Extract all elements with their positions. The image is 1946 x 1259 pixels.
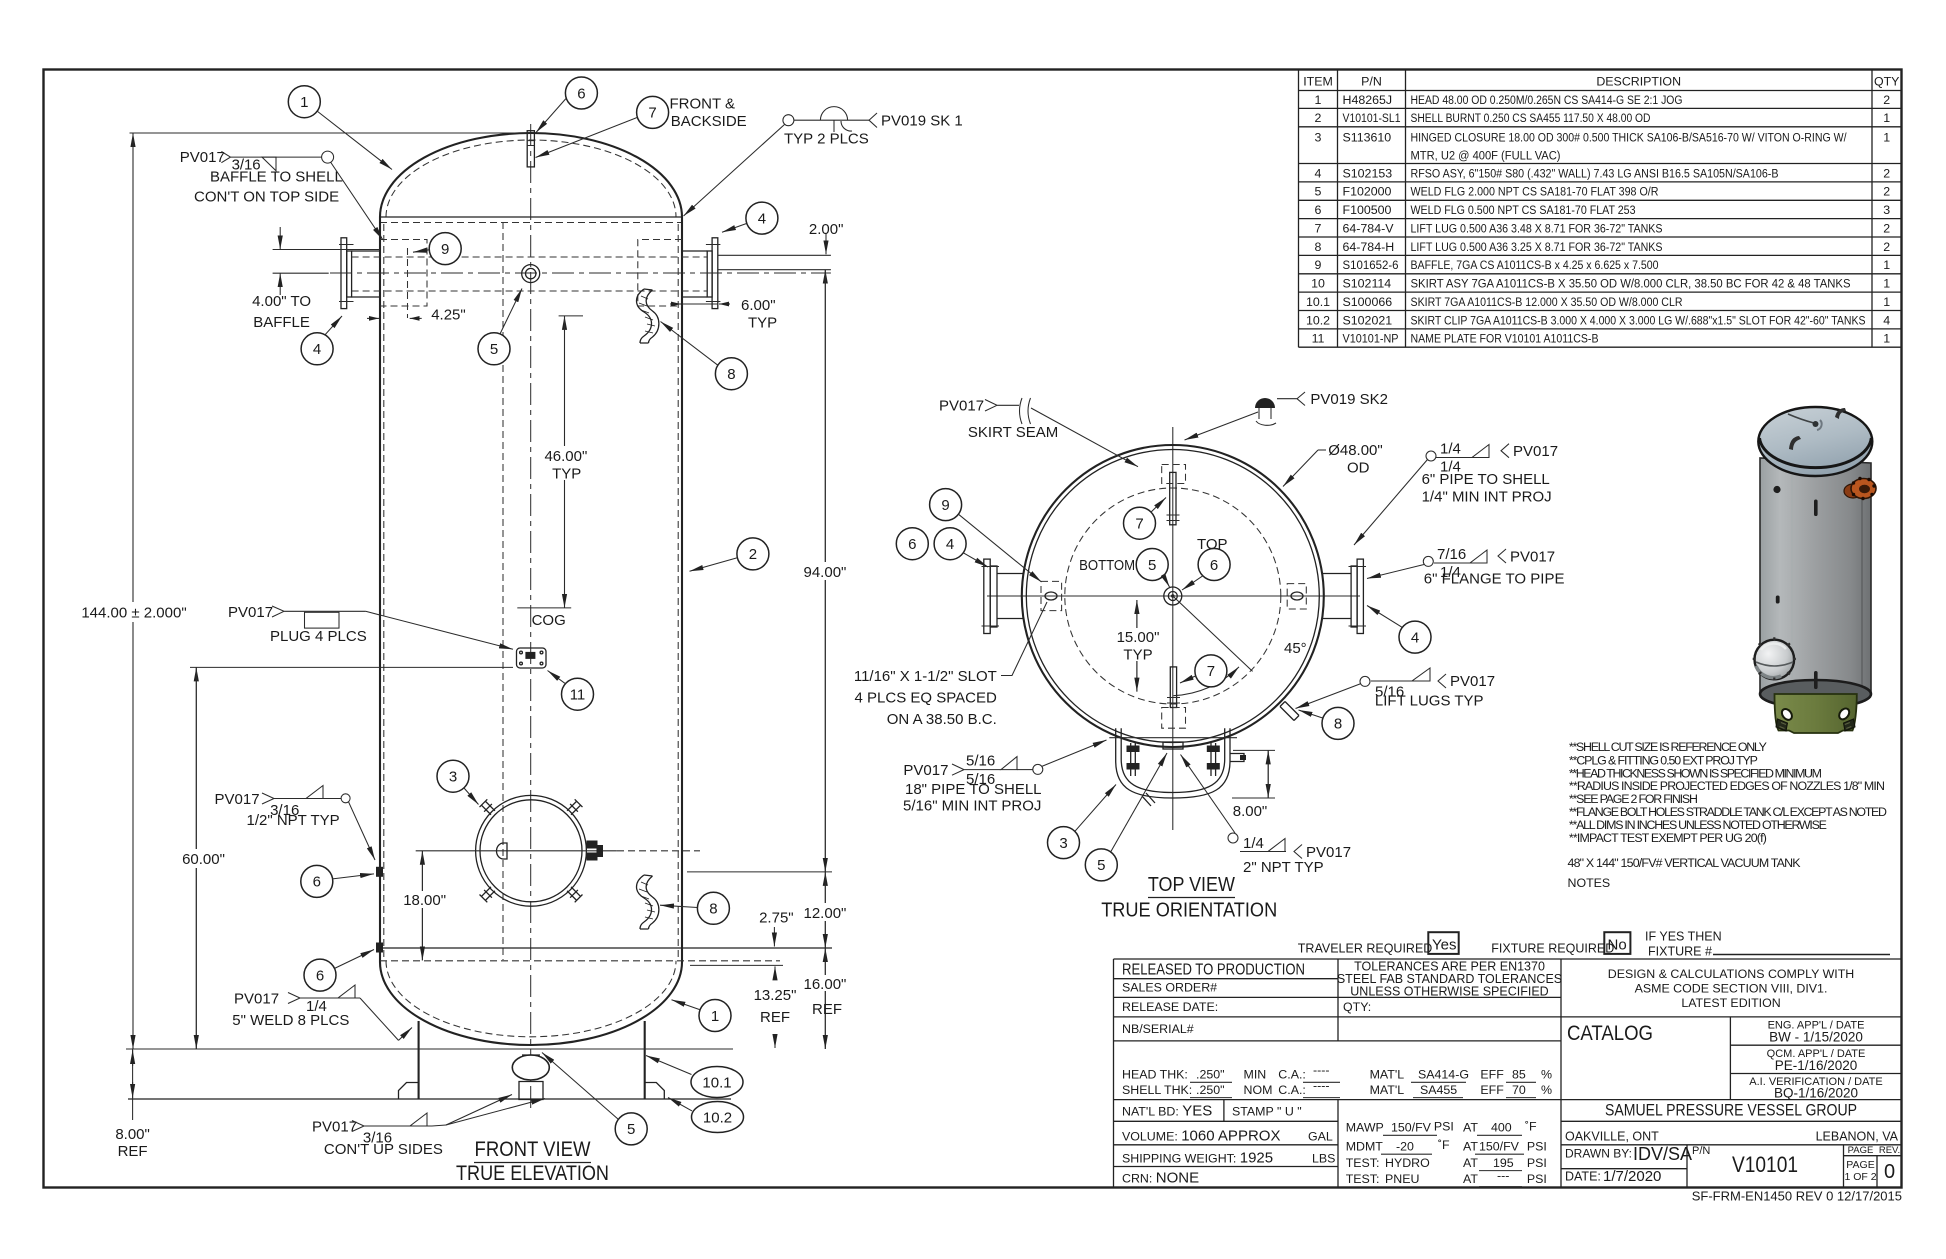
skirt slots [1780, 707, 1851, 722]
left pad dashed [1041, 581, 1062, 610]
svg-text:STAMP " U ": STAMP " U " [1232, 1105, 1302, 1119]
svg-text:2.75": 2.75" [759, 910, 794, 927]
svg-text:2" NPT TYP: 2" NPT TYP [1243, 859, 1324, 876]
svg-text:11: 11 [570, 687, 586, 704]
svg-text:P/N: P/N [1361, 75, 1382, 89]
svg-text:HEAD THK:: HEAD THK: [1122, 1068, 1188, 1082]
balloon 1 low [699, 1000, 731, 1032]
svg-text:REF: REF [760, 1009, 790, 1026]
svg-text:9: 9 [1315, 258, 1322, 272]
svg-text:400: 400 [1491, 1121, 1512, 1135]
svg-text:PV019 SK2: PV019 SK2 [1310, 391, 1388, 408]
svg-text:10.1: 10.1 [1306, 295, 1330, 309]
svg-text:F100500: F100500 [1343, 203, 1392, 217]
svg-text:PV017: PV017 [1510, 549, 1555, 566]
svg-text:SKIRT CLIP 7GA A1011CS-B 3.000: SKIRT CLIP 7GA A1011CS-B 3.000 X 4.000 X… [1411, 313, 1866, 327]
dim 2.00 [825, 233, 827, 254]
svg-text:----: ---- [1313, 1078, 1330, 1092]
svg-text:HINGED CLOSURE 18.00 OD 300# 0: HINGED CLOSURE 18.00 OD 300# 0.500 THICK… [1411, 130, 1847, 144]
svg-text:6: 6 [1210, 557, 1218, 574]
balloon 6 left top view [896, 528, 928, 560]
dim 144.00 [130, 132, 532, 134]
right reinforcing pad dashed [638, 240, 682, 307]
right nozzle flange (item 4) [1357, 559, 1363, 633]
svg-text:TEST:: TEST: [1346, 1172, 1380, 1186]
svg-text:S113610: S113610 [1343, 130, 1392, 144]
svg-text:3: 3 [1883, 203, 1890, 217]
svg-text:FIXTURE #: FIXTURE # [1648, 945, 1712, 959]
TABLE [1299, 70, 1902, 348]
svg-text:COG: COG [532, 612, 566, 629]
svg-text:PV017: PV017 [1450, 673, 1495, 690]
svg-text:TYP: TYP [552, 466, 581, 483]
dim 4.25 [367, 317, 379, 319]
7/16 1/4 weld callout [1423, 556, 1433, 566]
balloon 6 low [304, 959, 336, 991]
baffle hidden line (item 9) [407, 248, 409, 318]
svg-text:No: No [1608, 937, 1627, 954]
head/shell thk rows [1122, 1063, 1552, 1097]
svg-text:6: 6 [313, 874, 321, 891]
svg-text:˚F: ˚F [1525, 1119, 1537, 1133]
svg-text:PE-1/16/2020: PE-1/16/2020 [1775, 1058, 1858, 1073]
svg-text:BOTTOM: BOTTOM [1079, 557, 1135, 574]
svg-text:MIN: MIN [1244, 1068, 1267, 1082]
nozzle bore hidden lines [352, 257, 707, 291]
body slots [1814, 500, 1818, 517]
svg-text:S102114: S102114 [1343, 277, 1392, 291]
svg-text:1: 1 [1315, 93, 1322, 107]
internal hidden line [502, 222, 504, 960]
balloon 2 [737, 538, 769, 570]
svg-text:7/16: 7/16 [1437, 546, 1466, 563]
svg-text:REF: REF [812, 1001, 842, 1018]
NOTES [1568, 740, 1887, 890]
svg-text:NOTES: NOTES [1568, 876, 1611, 890]
svg-text:1 OF 2: 1 OF 2 [1844, 1171, 1876, 1183]
svg-text:UNLESS OTHERWISE SPECIFIED: UNLESS OTHERWISE SPECIFIED [1350, 985, 1548, 999]
svg-text:AT: AT [1463, 1121, 1478, 1135]
svg-text:2.00": 2.00" [809, 221, 844, 238]
svg-text:MAT'L: MAT'L [1370, 1068, 1405, 1082]
RENDER3D [1753, 407, 1876, 733]
3d manway [1755, 640, 1795, 680]
svg-text:PV019 SK 1: PV019 SK 1 [881, 113, 963, 130]
svg-text:RFSO ASY, 6"150# S80 (.432" WA: RFSO ASY, 6"150# S80 (.432" WALL) 7.43 L… [1411, 166, 1779, 180]
balloon 7 [637, 96, 669, 128]
svg-text:**SHELL CUT SIZE IS REFERENCE: **SHELL CUT SIZE IS REFERENCE ONLY [1569, 740, 1767, 754]
head lug handles [1789, 436, 1801, 450]
svg-text:LIFT LUG 0.500 A36 3.48 X 8.71: LIFT LUG 0.500 A36 3.48 X 8.71 FOR 36-72… [1411, 221, 1663, 235]
balloon 1 [288, 86, 320, 118]
svg-text:CON'T UP SIDES: CON'T UP SIDES [324, 1141, 443, 1158]
12.00 top boundary line [687, 871, 832, 873]
svg-text:LBS: LBS [1312, 1151, 1335, 1165]
svg-text:Yes: Yes [1432, 937, 1456, 954]
svg-text:GAL: GAL [1308, 1130, 1333, 1144]
svg-text:BW - 1/15/2020: BW - 1/15/2020 [1769, 1030, 1863, 1045]
dim 2.75 [773, 927, 775, 947]
dim 8.00 REF [132, 1049, 134, 1120]
svg-text:**HEAD THICKNESS SHOWN IS SPEC: **HEAD THICKNESS SHOWN IS SPECIFIED MINI… [1569, 766, 1822, 780]
svg-text:5: 5 [1315, 185, 1322, 199]
vessel centerline [530, 124, 532, 1108]
svg-text:BACKSIDE: BACKSIDE [671, 113, 747, 130]
svg-text:8: 8 [727, 366, 735, 383]
svg-text:8.00": 8.00" [115, 1126, 150, 1143]
dim 12.00 [824, 872, 826, 948]
svg-text:2: 2 [1883, 93, 1890, 107]
svg-text:4: 4 [946, 536, 954, 553]
svg-text:ON A 38.50 B.C.: ON A 38.50 B.C. [887, 711, 997, 728]
svg-text:PLUG 4 PLCS: PLUG 4 PLCS [270, 628, 367, 645]
svg-text:LIFT LUG 0.500 A36 3.25 X 8.71: LIFT LUG 0.500 A36 3.25 X 8.71 FOR 36-72… [1411, 240, 1663, 254]
svg-text:PV017: PV017 [939, 398, 984, 415]
svg-text:PV017: PV017 [903, 762, 948, 779]
2in npt stub on closure [1142, 793, 1155, 806]
svg-text:S100066: S100066 [1343, 295, 1393, 309]
bottom seam line [379, 947, 832, 949]
balloon 7 upper top view [1124, 507, 1156, 539]
3d vessel body [1760, 458, 1871, 708]
left nozzle flange (item 4) [984, 559, 990, 633]
svg-text:MAT'L: MAT'L [1370, 1083, 1405, 1097]
top coupling stub (item 6) [527, 131, 534, 167]
lift lug 45deg (item 8) [1280, 702, 1299, 721]
head inner dashed [386, 140, 676, 217]
svg-text:%: % [1541, 1083, 1552, 1097]
dim 16.00 REF [824, 948, 826, 1049]
svg-text:PSI: PSI [1527, 1156, 1547, 1170]
svg-text:QTY:: QTY: [1343, 1000, 1371, 1014]
balloon 10.2 [692, 1102, 744, 1133]
svg-text:DESCRIPTION: DESCRIPTION [1596, 75, 1681, 89]
svg-text:WELD FLG 2.000 NPT CS SA181-70: WELD FLG 2.000 NPT CS SA181-70 FLAT 398 … [1411, 185, 1659, 199]
svg-text:1/4" MIN INT PROJ: 1/4" MIN INT PROJ [1422, 489, 1552, 506]
svg-text:10.2: 10.2 [1306, 313, 1330, 327]
svg-text:PAGE: PAGE [1848, 1145, 1874, 1156]
svg-text:REV.: REV. [1879, 1145, 1900, 1156]
svg-text:BAFFLE: BAFFLE [253, 314, 310, 331]
dim 60.00 [190, 666, 513, 668]
svg-text:0: 0 [1884, 1161, 1895, 1183]
svg-text:5" WELD 8 PLCS: 5" WELD 8 PLCS [232, 1012, 349, 1029]
svg-text:DESIGN & CALCULATIONS COMPLY W: DESIGN & CALCULATIONS COMPLY WITH [1608, 967, 1854, 981]
balloon 9 [429, 233, 461, 265]
svg-text:PV017: PV017 [312, 1119, 357, 1136]
svg-text:**ALL DIMS IN INCHES UNLESS NO: **ALL DIMS IN INCHES UNLESS NOTED OTHERW… [1569, 818, 1827, 832]
shell (item 2) walls [380, 217, 682, 962]
closure bolts [1131, 743, 1216, 776]
svg-text:8: 8 [1315, 240, 1322, 254]
svg-text:8.00": 8.00" [1233, 803, 1268, 820]
svg-text:TRUE ORIENTATION: TRUE ORIENTATION [1101, 900, 1277, 922]
svg-text:CATALOG: CATALOG [1567, 1021, 1653, 1045]
svg-text:TOP VIEW: TOP VIEW [1148, 874, 1235, 896]
right pad dashed [1287, 584, 1306, 609]
bottom nozzle (item 5) [512, 1055, 549, 1080]
skirt access detail (item 3 closure) [1116, 728, 1230, 798]
svg-text:4 PLCS EQ SPACED: 4 PLCS EQ SPACED [855, 690, 997, 707]
balloon 6 top [565, 77, 597, 109]
svg-text:-20: -20 [1396, 1139, 1414, 1153]
svg-text:6: 6 [1315, 203, 1322, 217]
COG line [517, 607, 571, 609]
balloon 9 top view [930, 489, 962, 521]
svg-text:10.1: 10.1 [702, 1074, 731, 1091]
balloon 5 low top view [1085, 849, 1117, 881]
balloon 3 top view [1048, 827, 1080, 859]
svg-text:.250": .250" [1196, 1083, 1225, 1097]
svg-text:SA455: SA455 [1420, 1083, 1457, 1097]
balloon 4 left [301, 333, 333, 365]
svg-text:3: 3 [1059, 835, 1067, 852]
PV019 SK2 callout [1255, 398, 1275, 408]
svg-text:7: 7 [1315, 221, 1322, 235]
svg-text:NOM: NOM [1244, 1083, 1273, 1097]
svg-text:5: 5 [1148, 557, 1156, 574]
5/16 lift lugs callout [1360, 676, 1370, 686]
svg-text:PV017: PV017 [234, 991, 279, 1008]
svg-text:TEST:: TEST: [1346, 1156, 1380, 1170]
svg-text:4: 4 [758, 210, 766, 227]
dim 6.00 TYP [670, 303, 681, 305]
3d bottom rim [1760, 680, 1871, 708]
svg-text:C.A.:: C.A.: [1278, 1068, 1306, 1082]
balloon 10.1 [691, 1067, 743, 1098]
svg-text:SAMUEL PRESSURE VESSEL GROUP: SAMUEL PRESSURE VESSEL GROUP [1605, 1101, 1857, 1120]
balloon 11 [562, 678, 594, 710]
balloon 8 low [697, 892, 729, 924]
svg-text:TRAVELER REQUIRED: TRAVELER REQUIRED [1298, 942, 1433, 956]
svg-text:LEBANON, VA: LEBANON, VA [1816, 1130, 1899, 1144]
bottom tangent dashed [380, 960, 780, 962]
svg-text:NB/SERIAL#: NB/SERIAL# [1122, 1022, 1194, 1036]
no box [1604, 932, 1630, 954]
svg-text:V10101-NP: V10101-NP [1343, 332, 1399, 346]
svg-text:HYDRO: HYDRO [1385, 1156, 1430, 1170]
svg-text:64-784-V: 64-784-V [1343, 221, 1395, 235]
approvals [1605, 1020, 1883, 1120]
svg-text:9: 9 [441, 241, 449, 258]
head wire [1788, 414, 1814, 423]
svg-text:2: 2 [1883, 185, 1890, 199]
svg-text:S102153: S102153 [1343, 166, 1393, 180]
svg-text:13.25": 13.25" [754, 987, 797, 1004]
svg-text:7: 7 [1207, 663, 1215, 680]
head (item 1) outline [380, 133, 682, 217]
svg-text:1: 1 [1883, 130, 1890, 144]
skirt clips [1776, 719, 1788, 731]
svg-text:AT: AT [1463, 1139, 1478, 1153]
2in NPT callout [1228, 833, 1238, 843]
svg-text:IDV/SA: IDV/SA [1633, 1144, 1692, 1164]
svg-text:SKIRT SEAM: SKIRT SEAM [968, 424, 1058, 441]
svg-text:REF: REF [118, 1143, 148, 1160]
svg-text:4.00" TO: 4.00" TO [252, 293, 311, 310]
svg-text:150/FV: 150/FV [1391, 1121, 1432, 1135]
dim 15.00 TYP [1136, 600, 1138, 692]
svg-text:3: 3 [449, 769, 457, 786]
svg-text:2: 2 [1883, 221, 1890, 235]
svg-text:BQ-1/16/2020: BQ-1/16/2020 [1774, 1086, 1858, 1101]
top tangent dashed [380, 222, 682, 224]
svg-text:6.00": 6.00" [741, 297, 776, 314]
svg-text:Ø48.00": Ø48.00" [1328, 442, 1383, 459]
table body text [1343, 93, 1866, 346]
dim 4.00 TO BAFFLE [273, 250, 380, 274]
svg-text:5: 5 [1097, 857, 1105, 874]
left reinforcing pad dashed [380, 240, 427, 307]
svg-text:LIFT LUGS TYP: LIFT LUGS TYP [1375, 693, 1484, 710]
1/4 1/4 weld callout [1426, 451, 1436, 461]
svg-text:PSI: PSI [1527, 1172, 1547, 1186]
svg-text:6: 6 [908, 536, 916, 553]
svg-text:8: 8 [1334, 716, 1342, 733]
svg-text:2: 2 [1315, 111, 1322, 125]
svg-text:TYP: TYP [748, 315, 777, 332]
svg-text:CRN: NONE: CRN: NONE [1122, 1170, 1199, 1187]
svg-text:˚F: ˚F [1438, 1138, 1450, 1152]
balloon 4 right [746, 202, 778, 234]
svg-text:NAT'L BD: YES: NAT'L BD: YES [1122, 1103, 1212, 1120]
svg-text:MTR, U2 @ 400F (FULL VAC): MTR, U2 @ 400F (FULL VAC) [1411, 149, 1561, 163]
svg-text:ASME CODE SECTION VIII, DIV1.: ASME CODE SECTION VIII, DIV1. [1635, 982, 1828, 996]
svg-text:LATEST EDITION: LATEST EDITION [1681, 996, 1780, 1010]
svg-text:SKIRT ASY 7GA A1011CS-B X 35.5: SKIRT ASY 7GA A1011CS-B X 35.50 OD W/8.0… [1411, 277, 1851, 291]
svg-text:7: 7 [1135, 516, 1143, 533]
svg-text:6" FLANGE TO PIPE: 6" FLANGE TO PIPE [1424, 571, 1565, 588]
svg-text:8: 8 [709, 901, 717, 918]
left nozzle (item 4) flange [341, 238, 347, 309]
svg-text:1: 1 [1883, 111, 1890, 125]
lower 1/2 NPT fitting (item 6) [376, 943, 383, 953]
svg-text:7: 7 [648, 105, 656, 122]
svg-text:18.00": 18.00" [403, 892, 446, 909]
balloon 8 top [715, 358, 747, 390]
svg-text:QTY: QTY [1874, 75, 1899, 89]
svg-text:4: 4 [1315, 166, 1322, 180]
3d skirt [1775, 694, 1857, 733]
svg-text:%: % [1541, 1068, 1552, 1082]
svg-text:9: 9 [941, 497, 949, 514]
svg-text:OAKVILLE, ONT: OAKVILLE, ONT [1565, 1130, 1659, 1144]
2in coupling (item 5) [522, 265, 540, 283]
svg-text:RELEASE DATE:: RELEASE DATE: [1122, 1000, 1218, 1014]
skirt feet (item 10.2) [399, 1083, 665, 1100]
svg-text:PV017: PV017 [228, 604, 273, 621]
top lift lug bar (item 7) [1170, 472, 1176, 524]
PV019 SK1 callout [783, 115, 794, 126]
slot note [854, 668, 997, 728]
bottom head (item 1) [380, 962, 682, 1045]
svg-text:4: 4 [1883, 313, 1890, 327]
svg-text:P/N: P/N [1692, 1145, 1710, 1157]
svg-text:SA414-G: SA414-G [1418, 1068, 1469, 1082]
svg-text:BAFFLE TO SHELL: BAFFLE TO SHELL [210, 169, 343, 186]
svg-text:6: 6 [577, 85, 585, 102]
svg-text:TYP: TYP [1123, 647, 1152, 664]
svg-text:C.A.:: C.A.: [1278, 1083, 1306, 1097]
svg-text:1: 1 [711, 1008, 719, 1025]
svg-text:15.00": 15.00" [1117, 629, 1160, 646]
svg-text:IF YES THEN: IF YES THEN [1645, 930, 1722, 944]
svg-text:SHELL BURNT 0.250 CS SA455 117: SHELL BURNT 0.250 CS SA455 117.50 X 48.0… [1411, 111, 1651, 125]
manway (item 3) [476, 795, 587, 906]
svg-text:S102021: S102021 [1343, 313, 1393, 327]
svg-text:1: 1 [1883, 258, 1890, 272]
skirt (item 10.1) legs [419, 1021, 645, 1099]
TOPVIEW [854, 391, 1565, 922]
svg-text:18" PIPE TO SHELL: 18" PIPE TO SHELL [905, 781, 1042, 798]
svg-text:85: 85 [1512, 1068, 1526, 1082]
ground line [126, 1048, 733, 1050]
dim 13.25 REF [774, 966, 776, 979]
TITLEBLOCK [1114, 930, 1903, 1204]
svg-text:2: 2 [749, 546, 757, 563]
svg-text:F102000: F102000 [1343, 185, 1392, 199]
svg-text:1: 1 [1883, 277, 1890, 291]
svg-text:64-784-H: 64-784-H [1343, 240, 1395, 254]
svg-text:AT: AT [1463, 1172, 1478, 1186]
dim 94.00 [824, 270, 826, 872]
svg-text:1/2" NPT TYP: 1/2" NPT TYP [247, 812, 340, 829]
parts list table grid [1299, 70, 1902, 348]
svg-text:MDMT: MDMT [1346, 1139, 1384, 1153]
svg-text:ITEM: ITEM [1303, 75, 1333, 89]
svg-text:DATE:: DATE: [1565, 1170, 1601, 1184]
svg-text:**IMPACT TEST EXEMPT PER UG 20: **IMPACT TEST EXEMPT PER UG 20(f) [1569, 831, 1767, 845]
svg-text:48" X 144" 150/FV# VERTICAL V: 48" X 144" 150/FV# VERTICAL VACUUM TANK [1568, 856, 1802, 870]
svg-text:3: 3 [1315, 130, 1322, 144]
upper 1/2 NPT fitting (item 6) [376, 867, 383, 877]
svg-text:H48265J: H48265J [1343, 93, 1393, 107]
3d top head [1758, 407, 1872, 476]
balloon 5 bottom [615, 1113, 647, 1145]
svg-text:AT: AT [1463, 1156, 1478, 1170]
svg-text:SF-FRM-EN1450 REV 0 12/17/201: SF-FRM-EN1450 REV 0 12/17/2015 [1692, 1189, 1902, 1204]
right nozzle (item 4) flange [712, 238, 718, 309]
nozzle centerline [330, 272, 831, 274]
svg-text:5/16: 5/16 [966, 753, 995, 770]
upper lift lug (item 8) [637, 289, 659, 343]
svg-text:PSI: PSI [1527, 1139, 1547, 1153]
small nozzle marks on pads [1045, 592, 1057, 600]
svg-text:PV017: PV017 [1513, 443, 1558, 460]
svg-text:10: 10 [1311, 277, 1325, 291]
table header [1303, 75, 1899, 346]
mawp/test rows [1346, 1119, 1547, 1186]
svg-text:SHELL THK:: SHELL THK: [1122, 1083, 1192, 1097]
svg-text:EFF: EFF [1480, 1068, 1504, 1082]
svg-text:PSI: PSI [1434, 1119, 1454, 1133]
manway bolts [480, 799, 603, 902]
svg-text:V10101-SL1: V10101-SL1 [1343, 111, 1401, 125]
svg-text:DRAWN BY:: DRAWN BY: [1565, 1147, 1632, 1161]
45 deg arc [1173, 667, 1239, 696]
svg-text:1/7/2020: 1/7/2020 [1603, 1168, 1661, 1185]
svg-text:70: 70 [1512, 1083, 1526, 1097]
svg-text:5/16" MIN INT PROJ: 5/16" MIN INT PROJ [903, 798, 1041, 815]
balloon 7 lower top view [1195, 655, 1227, 687]
svg-text:6: 6 [316, 967, 324, 984]
flange extension lines right [718, 255, 831, 269]
svg-text:4: 4 [1411, 629, 1419, 646]
svg-text:11/16" X 1-1/2" SLOT: 11/16" X 1-1/2" SLOT [854, 668, 997, 685]
svg-text:FIXTURE REQUIRED: FIXTURE REQUIRED [1491, 942, 1614, 956]
manway inner slot [497, 843, 508, 859]
svg-text:TRUE ELEVATION: TRUE ELEVATION [456, 1162, 609, 1185]
